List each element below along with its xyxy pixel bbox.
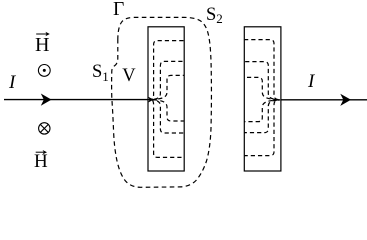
label S1 bbox=[92, 62, 109, 85]
wire left segment bbox=[4, 99, 150, 101]
H-field out-of-page symbol (circle-dot) bbox=[38, 65, 50, 77]
field line L1 in left plate (upper half) bbox=[151, 41, 184, 100]
field line R1 in right plate (lower half) bbox=[245, 100, 281, 156]
contour Gamma (dashed loop around left plate) bbox=[112, 17, 212, 187]
label I right bbox=[308, 71, 314, 93]
field line R3 in right plate (upper half) bbox=[245, 77, 279, 99]
capacitor plate right bbox=[244, 27, 281, 171]
field line L3 in left plate (upper half) bbox=[152, 75, 184, 99]
label I left bbox=[9, 72, 15, 94]
wire right segment bbox=[281, 99, 367, 101]
field line R2 in right plate (upper half) bbox=[245, 62, 280, 100]
wire junction arrowhead at left plate bbox=[148, 97, 154, 103]
label S2 bbox=[206, 5, 223, 27]
wire current arrow left bbox=[41, 94, 52, 106]
field line R3 in right plate (lower half) bbox=[245, 100, 279, 122]
field line R2 in right plate (lower half) bbox=[245, 100, 280, 133]
wire current arrow right bbox=[340, 94, 351, 106]
field line L1 in left plate (lower half) bbox=[151, 100, 184, 158]
label H top bbox=[35, 34, 49, 57]
field line R1 in right plate (upper half) bbox=[245, 40, 281, 100]
field line L2 in left plate (lower half) bbox=[151, 100, 184, 133]
label V bbox=[122, 66, 135, 87]
vector arrow over bottom H bbox=[36, 150, 47, 154]
label Gamma bbox=[113, 0, 124, 21]
capacitor plate left bbox=[148, 27, 184, 171]
label H bottom bbox=[34, 151, 48, 173]
field line L2 in left plate (upper half) bbox=[151, 61, 184, 99]
H-field into-page symbol (circle-cross) bbox=[39, 123, 50, 134]
field line L3 in left plate (lower half) bbox=[152, 100, 184, 121]
vector arrow over top H bbox=[36, 32, 50, 36]
